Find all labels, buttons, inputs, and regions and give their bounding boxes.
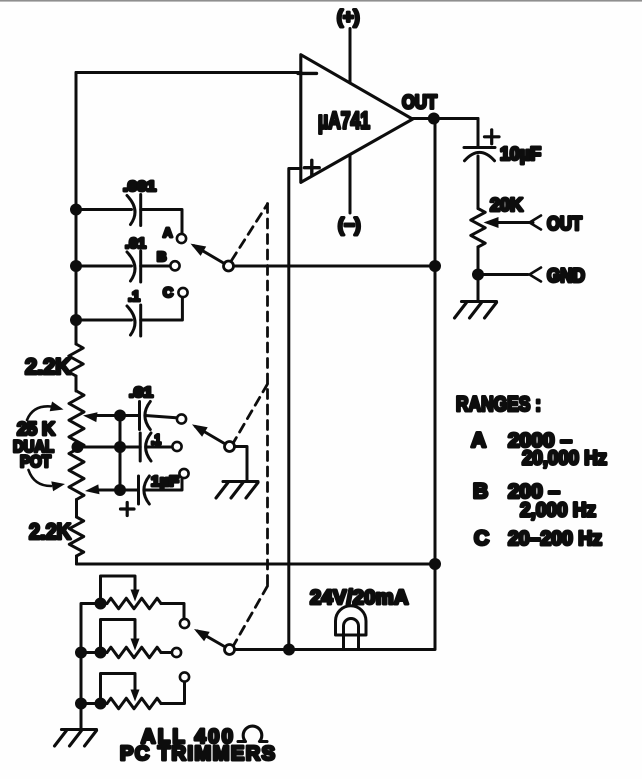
svg-text:OUT: OUT <box>402 93 437 114</box>
wire: vertical link joining wipers and tap <box>119 416 122 491</box>
wire: S1b pole to ground <box>235 447 248 482</box>
wire: bus lower segment to bottom rail <box>75 556 78 564</box>
switch S1b contact 2 <box>172 442 181 451</box>
capacitor C6 .1 <box>139 433 142 461</box>
curved gang arrow lower <box>29 470 52 486</box>
wire: row-2 right (C2 to contact B) <box>141 265 171 268</box>
trimmer R5 400 ohm (top) <box>107 598 161 609</box>
junction: bus/row1 <box>70 204 82 216</box>
svg-text:RANGES :: RANGES : <box>456 393 541 416</box>
junction: R5 left terminal <box>95 598 107 610</box>
junction: GND node <box>472 269 484 281</box>
wire: row-1 left (bus to C1) <box>76 208 132 211</box>
wire: row-3 right (C3 up to contact C) <box>141 297 183 320</box>
wire: R5 right end to S1c contact 1 <box>161 604 184 619</box>
capacitor C3 .1 <box>127 306 135 335</box>
potentiometer R2 25K dual pot body <box>69 391 84 500</box>
svg-text:B: B <box>473 480 488 503</box>
wire: pot wiper-2 / C7 row <box>98 489 139 492</box>
svg-text:2.2K: 2.2K <box>25 354 71 379</box>
wire: C7 up to S1b contact 3 <box>145 478 182 490</box>
junction: S1a pole wire / right column <box>429 260 441 272</box>
wire: C5 to S1b contact 1 <box>145 416 176 418</box>
switch S1a pole <box>224 261 234 271</box>
wire: R5 left to trimmer bus <box>81 604 101 653</box>
svg-text:OUT: OUT <box>547 214 582 235</box>
switch S1b wiper arm <box>196 427 226 445</box>
junction: wiper2/link <box>114 484 126 496</box>
gang dashed link: diagonal to S1b pole <box>234 384 268 443</box>
capacitor C7 1uF polarized <box>137 476 140 504</box>
R4 wiper arm from OUT terminal <box>493 221 533 224</box>
wire: C6 to S1b contact 2 <box>146 446 172 449</box>
trimmer R6 400 ohm (middle) <box>107 647 161 658</box>
wire: trimmer bus down to ground <box>80 653 83 730</box>
R5 wiper jumper <box>101 576 136 604</box>
junction: R7 left terminal <box>95 698 107 710</box>
wire: into capacitor C4 <box>477 119 480 148</box>
svg-text:20–200 Hz: 20–200 Hz <box>508 528 602 550</box>
wire: bus between R1 and dual pot <box>75 376 78 391</box>
gang dashed link: vertical <box>266 204 269 587</box>
power V+ stub <box>349 29 352 84</box>
junction: R6 left terminal <box>95 647 107 659</box>
power V- stub <box>349 156 352 214</box>
wire: right column vertical (OUT node down to bottom rail and lamp) <box>235 119 436 650</box>
svg-text:1µF: 1µF <box>151 473 179 490</box>
lamp DS1 24V/20mA <box>336 606 367 635</box>
switch S1b pole <box>225 442 235 452</box>
svg-text:24V/20mA: 24V/20mA <box>310 587 409 609</box>
junction: pot center tap <box>72 441 84 453</box>
junction: wiper1/link <box>114 410 126 422</box>
pot wiper-1 arrow <box>83 412 98 422</box>
terminal OUT chevron <box>530 216 542 230</box>
switch S1b contact 3 <box>179 469 188 478</box>
wire: pot center tap row <box>78 446 141 449</box>
op-amp U1 non-inverting input mark <box>305 166 320 169</box>
switch S1a wiper arm <box>194 246 224 264</box>
junction: bus/row2 <box>70 260 82 272</box>
ground symbol at S1b <box>223 480 258 483</box>
svg-text:25 K: 25 K <box>17 419 55 439</box>
svg-text:µA741: µA741 <box>318 108 370 135</box>
svg-text:B: B <box>157 249 166 264</box>
wire: row-3 left (bus to C3) <box>76 319 132 322</box>
svg-text:C: C <box>474 527 489 550</box>
svg-text:(+): (+) <box>337 7 360 27</box>
ground symbol trimmer bus <box>62 728 97 731</box>
ground symbol at output attenuator <box>462 300 497 303</box>
wire: R4 bottom to ground node <box>477 247 480 302</box>
op-amp U1 uA741 triangle <box>301 55 413 183</box>
node OUT junction <box>428 113 440 125</box>
junction: bus/row3 <box>70 314 82 326</box>
switch S1c wiper arm <box>198 631 226 647</box>
junction: trimmer bus row3 <box>75 698 87 710</box>
svg-text:20K: 20K <box>490 195 523 215</box>
wire: R7 right end up to S1c contact 3 <box>161 682 185 704</box>
svg-text:POT: POT <box>20 452 52 471</box>
gang dashed link: diagonal to S1c pole <box>234 586 268 646</box>
svg-text:.1: .1 <box>128 288 140 305</box>
switch S1c contact 3 <box>180 672 189 681</box>
switch S1b contact 1 <box>177 414 186 423</box>
svg-text:A: A <box>471 429 486 452</box>
wire: left bus upper segment <box>75 73 78 345</box>
svg-text:2,000 Hz: 2,000 Hz <box>520 500 596 522</box>
switch S1c pole <box>225 645 235 655</box>
svg-text:.01: .01 <box>125 235 146 252</box>
svg-text:(−): (−) <box>338 215 361 235</box>
resistor R1 2.2K (upper) <box>69 344 83 376</box>
capacitor C2 .01 <box>127 252 135 281</box>
terminal GND chevron <box>530 268 542 282</box>
wire: row-2 left (bus to C2) <box>76 265 132 268</box>
svg-text:PC TRIMMERS: PC TRIMMERS <box>120 743 277 765</box>
svg-text:.1: .1 <box>151 431 161 447</box>
wire: bottom rail <box>77 563 436 566</box>
wire: S1a pole to right column <box>234 265 435 268</box>
svg-text:GND: GND <box>547 266 585 287</box>
wire: row-1 right (C1 to contact A) <box>141 210 182 234</box>
switch S1a contact A <box>177 234 186 243</box>
svg-text:20,000 Hz: 20,000 Hz <box>522 448 607 470</box>
svg-text:.001: .001 <box>123 178 156 195</box>
wire: op-amp output to 10uF branch <box>413 117 478 120</box>
capacitor C5 .01 <box>138 402 141 430</box>
junction: trimmer bus row2 <box>75 647 87 659</box>
wire: top rail from left bus to op-amp inverting input <box>76 71 301 74</box>
svg-text:10µF: 10µF <box>500 144 541 164</box>
resistor R3 2.2K (lower) <box>69 517 83 556</box>
curved gang arrow upper <box>27 406 51 420</box>
junction: bottom rail / right column <box>429 558 441 570</box>
wire: feedback from + input down to lamp row <box>289 169 301 650</box>
switch S1c contact 2 <box>172 648 181 657</box>
junction: tap/link <box>114 441 126 453</box>
svg-text:A: A <box>163 225 173 240</box>
switch S1a contact C <box>178 288 187 297</box>
potentiometer R4 20K <box>471 209 485 248</box>
wire: C4 to R4 <box>477 156 480 209</box>
R6 wiper jumper <box>101 620 136 653</box>
R7 wiper jumper <box>101 674 136 704</box>
capacitor C4 10uF polarized <box>464 146 495 149</box>
op-amp U1 inverting input mark <box>298 72 317 75</box>
wire: pot wiper-1 row <box>96 414 140 417</box>
wire: R6 right end to S1c contact 2 <box>161 651 172 654</box>
svg-text:2.2K: 2.2K <box>29 519 71 544</box>
wire: ground node to GND terminal <box>478 273 528 276</box>
capacitor C1 .001 <box>127 196 135 225</box>
switch S1c contact 1 <box>180 619 189 628</box>
junction: feedback / lamp row <box>283 644 295 656</box>
gang dashed link: diagonal from S1a pole <box>232 204 268 261</box>
switch S1a contact B <box>170 261 179 270</box>
svg-text:C: C <box>163 284 173 300</box>
scan edge artifact top <box>0 0 642 2</box>
svg-text:.01: .01 <box>129 384 153 401</box>
wire: bus between pot and R3 <box>75 500 78 518</box>
trimmer R7 400 ohm (bottom) <box>107 698 161 709</box>
pot wiper-2 arrow <box>85 484 100 494</box>
